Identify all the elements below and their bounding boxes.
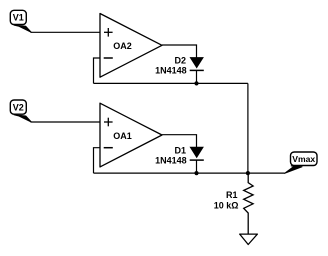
wire V1 to OA2 + input — [31, 31, 101, 33]
wire OA2 output to D2 anode — [162, 45, 197, 58]
wire D1 cathode to output node — [196, 160, 198, 173]
svg-text:10 kΩ: 10 kΩ — [214, 200, 239, 210]
junction at D1 cathode / node — [194, 171, 198, 175]
resistor R1 10 kOhm — [214, 173, 253, 234]
svg-text:V1: V1 — [13, 13, 24, 23]
diode D2 1N4148 — [155, 56, 204, 76]
wire bus down to output node — [247, 83, 249, 173]
junction at D2 cathode / bus — [194, 81, 198, 85]
op-amp OA1 — [100, 103, 162, 167]
node V1 — [10, 10, 31, 32]
diode D1 1N4148 — [155, 145, 204, 165]
svg-text:OA2: OA2 — [113, 41, 132, 51]
svg-text:D1: D1 — [174, 145, 186, 155]
svg-text:Vmax: Vmax — [292, 154, 315, 164]
wire V2 to OA1 + input — [31, 121, 101, 123]
svg-text:1N4148: 1N4148 — [155, 155, 187, 165]
node Vmax — [285, 152, 317, 173]
ground — [240, 234, 258, 244]
node V2 — [10, 100, 31, 122]
wire OA1 feedback (inverting input to output node) — [94, 148, 101, 173]
wire D2 cathode to bus — [196, 70, 198, 83]
svg-text:D2: D2 — [174, 56, 186, 66]
svg-text:OA1: OA1 — [113, 131, 132, 141]
junction at R1 top / node — [246, 171, 250, 175]
svg-text:R1: R1 — [226, 190, 238, 200]
wire output node line — [94, 172, 285, 174]
op-amp OA2 — [100, 14, 162, 78]
wire OA2 feedback (inverting input to bus) — [94, 58, 101, 83]
wire bus OA2 row — [94, 82, 248, 84]
svg-text:V2: V2 — [13, 102, 24, 112]
svg-text:1N4148: 1N4148 — [155, 65, 187, 75]
wire OA1 output to D1 anode — [162, 135, 197, 148]
